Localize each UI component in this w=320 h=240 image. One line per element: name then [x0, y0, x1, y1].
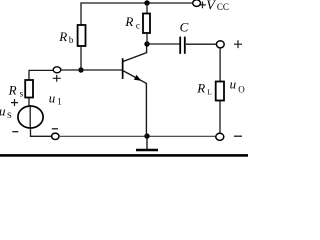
wire R_s to source: [28, 98, 30, 107]
transistor Q base bar: [122, 58, 124, 79]
transistor Q emitter stroke: [123, 71, 146, 136]
svg-text:R: R: [196, 80, 205, 95]
terminal output top circle: [216, 41, 224, 48]
svg-text:CC: CC: [217, 2, 229, 12]
resistor R_c: [143, 14, 150, 34]
wire capacitor to output: [186, 43, 217, 45]
label - output: [234, 135, 242, 137]
terminal output bottom circle: [216, 133, 224, 140]
label + output: [234, 40, 242, 48]
bottom rule bar: [0, 154, 248, 157]
node emitter/ground junction: [144, 133, 149, 138]
svg-text:u: u: [0, 104, 6, 119]
svg-text:S: S: [7, 110, 12, 120]
terminal input top circle: [53, 67, 61, 73]
transistor Q collector stroke: [123, 44, 146, 61]
wire source bottom corner: [31, 128, 52, 136]
svg-text:b: b: [69, 35, 74, 45]
node base junction: [78, 67, 83, 72]
svg-text:u: u: [230, 77, 237, 92]
transistor Q emitter arrow: [134, 75, 141, 81]
svg-text:L: L: [207, 87, 212, 96]
wire R_c to collector: [146, 33, 148, 44]
label - above input bottom terminal: [52, 128, 58, 130]
resistor R_s: [25, 80, 33, 98]
terminal +Vcc circle: [193, 0, 201, 6]
wire top rail: [81, 2, 193, 4]
svg-text:u: u: [49, 90, 56, 105]
node top rail junction: [144, 0, 149, 5]
label +Vcc: [199, 2, 206, 9]
label - of source u_S: [12, 131, 18, 133]
wire bottom rail: [59, 135, 216, 137]
wire base: [61, 69, 122, 71]
svg-text:R: R: [58, 29, 67, 44]
ground: [146, 136, 148, 150]
wire output top to R_L: [219, 48, 221, 82]
svg-text:C: C: [180, 19, 189, 34]
node collector junction: [144, 41, 149, 46]
source u_S: [18, 106, 43, 128]
svg-text:c: c: [136, 20, 140, 30]
resistor R_b: [78, 25, 86, 46]
label + below input terminal: [53, 75, 61, 82]
capacitor C: [179, 37, 181, 54]
resistor R_L: [216, 82, 224, 101]
wire collector to capacitor: [147, 43, 179, 45]
wire source internal diameter: [29, 106, 31, 128]
wire R_b branch bottom: [80, 46, 82, 70]
svg-text:1: 1: [57, 97, 62, 107]
label + of source u_S: [11, 99, 18, 106]
wire R_s top corner: [29, 70, 53, 80]
terminal input bottom circle: [52, 133, 59, 139]
wire R_b branch top: [80, 2, 82, 25]
wire R_L to bottom: [219, 101, 221, 134]
svg-text:R: R: [124, 14, 133, 29]
svg-text:R: R: [8, 83, 17, 98]
wire rail to R_c: [146, 3, 148, 14]
svg-text:O: O: [238, 84, 245, 94]
svg-text:V: V: [206, 0, 216, 14]
svg-text:s: s: [20, 89, 24, 99]
